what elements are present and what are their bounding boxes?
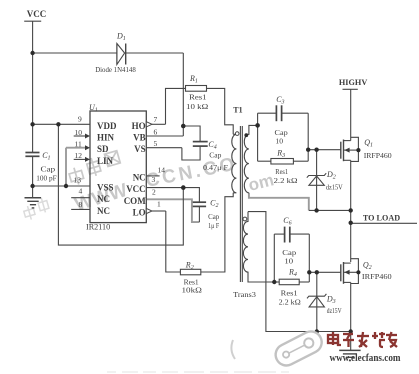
svg-text:HIN: HIN: [97, 133, 115, 143]
svg-text:10: 10: [284, 257, 293, 266]
svg-text:VCC: VCC: [27, 9, 47, 19]
svg-text:Res1: Res1: [275, 167, 288, 176]
svg-text:IRFP460: IRFP460: [364, 151, 392, 160]
svg-text:1μ F: 1μ F: [208, 221, 220, 230]
svg-text:VS: VS: [134, 144, 146, 154]
svg-text:Res1: Res1: [281, 288, 298, 297]
svg-text:2.2 kΩ: 2.2 kΩ: [279, 298, 302, 307]
svg-text:1: 1: [157, 200, 161, 209]
svg-text:Cap: Cap: [209, 150, 221, 159]
svg-text:VB: VB: [133, 133, 146, 143]
svg-text:9: 9: [78, 115, 82, 124]
svg-text:5: 5: [154, 139, 158, 148]
svg-text:2.2 kΩ: 2.2 kΩ: [274, 176, 298, 185]
svg-text:Res1: Res1: [189, 92, 207, 101]
svg-text:Diode 1N4148: Diode 1N4148: [95, 65, 136, 74]
svg-text:14: 14: [158, 166, 166, 175]
svg-text:NC: NC: [97, 206, 110, 216]
svg-text:7: 7: [154, 115, 158, 124]
svg-text:VSS: VSS: [97, 183, 114, 193]
svg-text:0.47μ F: 0.47μ F: [203, 163, 229, 172]
svg-text:www.elecfans.com: www.elecfans.com: [330, 353, 401, 364]
svg-text:13: 13: [74, 175, 82, 184]
svg-text:T1: T1: [233, 105, 242, 114]
svg-text:dz15V: dz15V: [326, 183, 343, 192]
svg-text:TO LOAD: TO LOAD: [363, 213, 400, 223]
svg-text:Cap: Cap: [41, 164, 56, 173]
svg-text:10kΩ: 10kΩ: [182, 286, 203, 295]
svg-text:NC: NC: [97, 194, 110, 204]
svg-text:6: 6: [154, 128, 158, 137]
svg-text:10: 10: [275, 137, 283, 146]
svg-text:LO: LO: [133, 208, 146, 218]
svg-text:LIN: LIN: [97, 156, 114, 166]
svg-text:Trans3: Trans3: [233, 290, 256, 299]
svg-text:2: 2: [152, 188, 156, 197]
svg-text:Cap: Cap: [208, 212, 219, 221]
svg-text:COM: COM: [124, 196, 147, 206]
svg-text:11: 11: [75, 140, 82, 149]
svg-text:HO: HO: [132, 121, 146, 131]
svg-text:10 kΩ: 10 kΩ: [186, 102, 208, 111]
svg-text:8: 8: [79, 200, 83, 209]
svg-text:SD: SD: [97, 144, 109, 154]
svg-text:3: 3: [152, 175, 156, 184]
svg-text:NC: NC: [133, 172, 146, 182]
svg-text:dz15V: dz15V: [327, 306, 342, 315]
svg-text:IR2110: IR2110: [86, 222, 110, 231]
svg-text:10: 10: [75, 128, 83, 137]
svg-text:12: 12: [75, 151, 83, 160]
svg-text:HIGHV: HIGHV: [339, 77, 368, 87]
svg-text:VCC: VCC: [126, 184, 146, 194]
svg-text:4: 4: [79, 187, 83, 196]
svg-text:VDD: VDD: [97, 121, 117, 131]
svg-text:100 pF: 100 pF: [36, 174, 57, 183]
svg-text:IRFP460: IRFP460: [362, 272, 392, 281]
